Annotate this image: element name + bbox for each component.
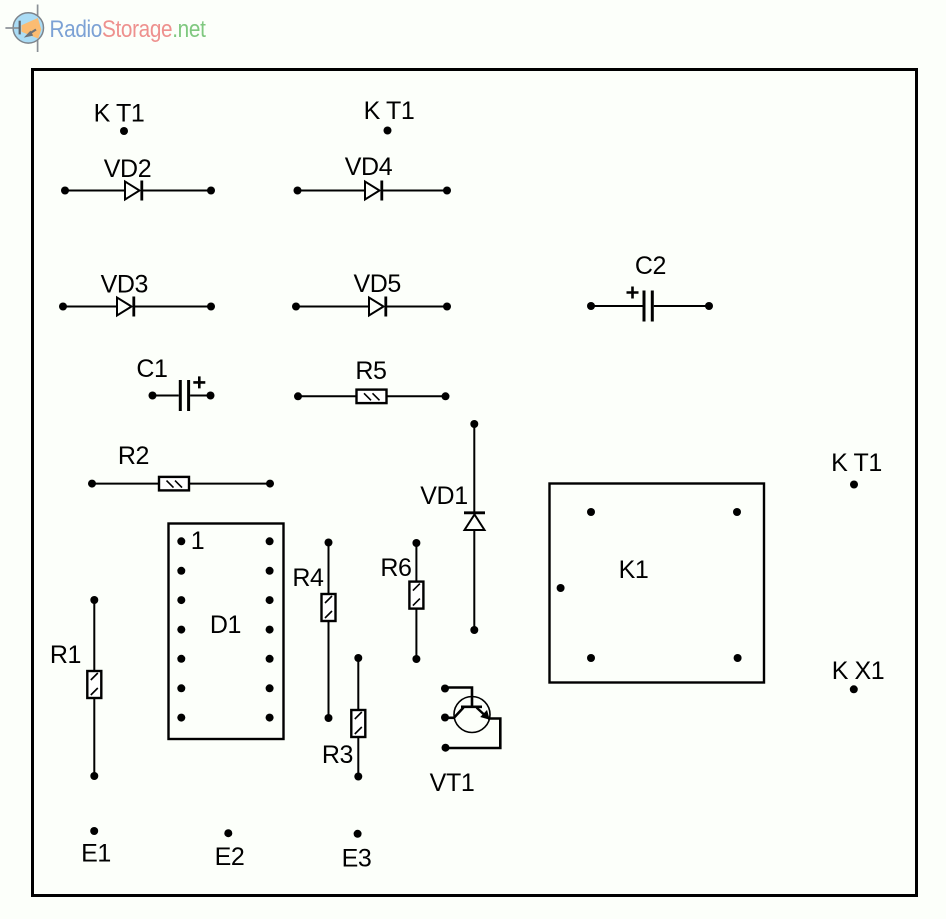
resistor R2 <box>88 477 274 491</box>
svg-text:E3: E3 <box>342 845 372 873</box>
pad VD4 right <box>443 187 451 195</box>
VT1 collector segment with arrow <box>477 708 485 715</box>
pad R5 right <box>442 392 450 400</box>
VD1 triangle (anode) <box>465 515 485 531</box>
pad C1 right <box>207 392 215 400</box>
relay K1 outline <box>550 484 765 683</box>
svg-text:K T1: K T1 <box>831 449 882 477</box>
VD3 triangle (anode) <box>117 298 132 316</box>
logo transistor icon <box>5 5 43 53</box>
capacitor C1 <box>149 376 215 411</box>
svg-text:K X1: K X1 <box>832 657 885 685</box>
C2 plate 2 <box>651 291 654 322</box>
pad E3 <box>354 830 362 838</box>
pad VD1 top <box>470 420 478 428</box>
diode VD2 <box>61 181 215 201</box>
wire VT1 emitter lead <box>445 716 455 719</box>
pad K T1 (top middle) <box>384 127 392 135</box>
wire VD4 anode lead <box>298 190 366 192</box>
wire VD1 anode lead <box>473 530 475 630</box>
VD2 cathode bar <box>140 181 143 201</box>
svg-text:C2: C2 <box>635 252 666 280</box>
pad R5 left <box>294 392 302 400</box>
svg-text:1: 1 <box>191 527 205 555</box>
wire C2 right lead <box>654 305 709 307</box>
VD4 cathode bar <box>380 181 383 201</box>
pad VD3 left <box>59 303 67 311</box>
svg-text:D1: D1 <box>210 611 241 639</box>
svg-text:K T1: K T1 <box>94 100 145 128</box>
pad R2 left <box>88 480 96 488</box>
pad VD2 right <box>207 187 215 195</box>
C2 plate 1 <box>643 291 646 322</box>
resistor R6 <box>409 539 423 663</box>
wire R4 bottom lead <box>328 621 330 718</box>
svg-text:VD5: VD5 <box>353 270 400 298</box>
resistor R5 <box>294 390 450 404</box>
svg-text:R4: R4 <box>292 564 324 592</box>
diode VD1 <box>464 420 485 634</box>
VD3 cathode bar <box>132 297 135 317</box>
svg-text:VT1: VT1 <box>430 769 475 797</box>
wire VT1 collector return <box>446 719 500 749</box>
pad VD4 left <box>294 187 302 195</box>
pad VD5 right <box>443 303 451 311</box>
wire R3 bottom lead <box>357 737 359 777</box>
svg-text:VD3: VD3 <box>101 271 148 299</box>
svg-text:RadioStorage.net: RadioStorage.net <box>50 16 207 43</box>
wire VD2 cathode lead <box>142 190 211 192</box>
diode VD5 <box>292 297 451 317</box>
wire VD2 anode lead <box>65 190 125 192</box>
wire R2 right lead <box>189 483 270 485</box>
VD5 triangle (anode) <box>369 298 384 316</box>
pad C2 left <box>587 302 595 310</box>
svg-text:E1: E1 <box>81 840 111 868</box>
VT1 body circle <box>454 697 490 733</box>
wire R2 left lead <box>92 483 159 485</box>
pad VT1 emitter <box>441 714 449 722</box>
wire R6 bottom lead <box>415 609 417 659</box>
wire R1 top lead <box>93 600 95 671</box>
wire R5 left lead <box>298 395 357 397</box>
R4 body <box>322 594 336 621</box>
pad VD3 right <box>207 303 215 311</box>
pad E1 <box>90 827 98 835</box>
C1 plate 2 <box>187 380 190 411</box>
VD2 triangle (anode) <box>125 182 140 200</box>
K1 pin top left <box>587 508 595 516</box>
wire VD5 cathode lead <box>386 306 447 308</box>
wire R5 right lead <box>387 395 446 397</box>
C2 polarity plus <box>627 287 639 299</box>
pad R4 top <box>325 539 333 547</box>
resistor R1 <box>87 596 101 780</box>
pad VD1 bottom <box>470 626 478 634</box>
svg-text:K1: K1 <box>619 556 649 584</box>
svg-text:R2: R2 <box>118 442 149 470</box>
wire R4 top lead <box>328 543 330 595</box>
svg-text:R1: R1 <box>50 641 81 669</box>
R1 body <box>87 671 101 698</box>
svg-text:VD2: VD2 <box>104 155 151 183</box>
K1 pin middle left <box>557 584 565 592</box>
diode VD4 <box>294 181 452 201</box>
pad R3 top <box>354 654 362 662</box>
pad K T1 (top left) <box>120 127 128 135</box>
VD4 triangle (anode) <box>365 182 380 200</box>
wire R3 top lead <box>357 658 359 710</box>
pad R6 bottom <box>412 655 420 663</box>
diode VD3 <box>59 297 215 317</box>
pad R2 right <box>266 480 274 488</box>
svg-text:R5: R5 <box>355 357 386 385</box>
wire C2 left lead <box>591 305 643 307</box>
VD5 cathode bar <box>384 297 387 317</box>
IC D1 outline <box>169 524 284 740</box>
pad R4 bottom <box>325 714 333 722</box>
D1 pins right column <box>266 537 274 721</box>
resistor R4 <box>322 539 336 723</box>
wire VD4 cathode lead <box>382 190 447 192</box>
pad VD2 left <box>61 187 69 195</box>
wire R1 bottom lead <box>93 698 95 776</box>
R5 body <box>357 390 387 404</box>
pad VT1 collector <box>442 744 450 752</box>
pad VT1 base <box>441 685 449 693</box>
resistor R3 <box>351 654 365 781</box>
svg-text:R6: R6 <box>380 554 411 582</box>
pad R3 bottom <box>354 773 362 781</box>
wire VD5 anode lead <box>296 306 369 308</box>
wire VD3 cathode lead <box>134 306 211 308</box>
wire VD3 anode lead <box>63 306 117 308</box>
pad K X1 <box>850 685 858 693</box>
pad K T1 (right) <box>850 481 858 489</box>
wire VT1 base lead <box>445 688 472 707</box>
wire VD1 cathode lead <box>473 424 475 512</box>
R3 body <box>351 710 365 737</box>
VT1 base bar <box>461 705 482 708</box>
wire C1 right lead <box>190 395 210 397</box>
D1 pins left column <box>177 537 185 721</box>
R6 body <box>409 582 423 609</box>
R2 body <box>159 477 189 491</box>
VT1 emitter segment <box>454 708 463 718</box>
transistor VT1 <box>441 685 500 752</box>
logo text RadioStorage.net <box>50 16 207 43</box>
pad C2 right <box>705 302 713 310</box>
svg-text:R3: R3 <box>322 741 353 769</box>
wire R6 top lead <box>415 543 417 582</box>
svg-text:C1: C1 <box>136 355 167 383</box>
wire C1 left lead <box>153 395 179 397</box>
K1 pin top right <box>733 508 741 516</box>
C1 plate 1 <box>179 380 182 411</box>
pad R1 top <box>90 596 98 604</box>
svg-text:VD4: VD4 <box>345 153 393 181</box>
svg-text:K T1: K T1 <box>364 97 415 125</box>
svg-text:VD1: VD1 <box>420 482 467 510</box>
capacitor C2 <box>587 287 713 322</box>
K1 pin bottom right <box>734 654 742 662</box>
pad R1 bottom <box>90 772 98 780</box>
C1 polarity plus <box>193 376 205 388</box>
pad E2 <box>224 829 232 837</box>
K1 pin bottom left <box>587 654 595 662</box>
pad C1 left <box>149 392 157 400</box>
svg-text:E2: E2 <box>215 843 245 871</box>
VD1 cathode bar <box>464 511 485 514</box>
pad VD5 left <box>292 303 300 311</box>
pad R6 top <box>412 539 420 547</box>
